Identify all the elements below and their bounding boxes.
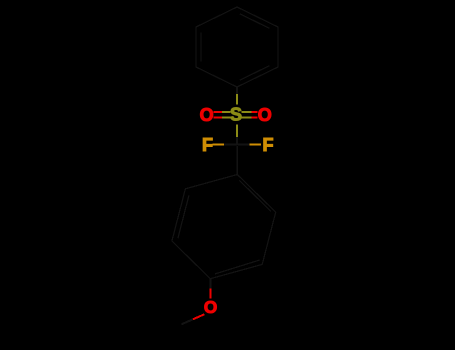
svg-text:S: S — [230, 105, 242, 125]
svg-text:F: F — [263, 135, 274, 155]
svg-text:O: O — [258, 105, 272, 125]
svg-text:O: O — [204, 297, 217, 317]
svg-text:F: F — [202, 135, 213, 155]
svg-text:O: O — [200, 105, 214, 125]
